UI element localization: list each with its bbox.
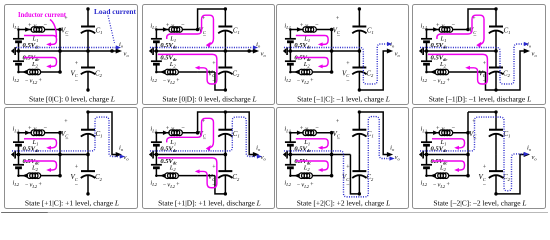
svg-text:+: + (300, 23, 304, 29)
svg-text:−: − (163, 182, 166, 188)
svg-text:+: + (310, 182, 313, 188)
svg-text:State [–1|D]: –1 level, discha: State [–1|D]: –1 level, discharge L (429, 95, 532, 104)
svg-text:+: + (28, 125, 32, 132)
svg-text:−: − (315, 125, 319, 132)
svg-text:+: + (39, 182, 42, 188)
svg-text:+: + (346, 165, 350, 171)
svg-text:−: − (337, 137, 341, 143)
svg-text:+: + (64, 119, 68, 125)
svg-text:+: + (166, 125, 170, 132)
svg-text:State [0|C]: 0 level, charge L: State [0|C]: 0 level, charge L (29, 95, 115, 104)
svg-text:−: − (25, 182, 28, 188)
svg-text:State [+2|C]: +2 level, charge: State [+2|C]: +2 level, charge L (297, 198, 391, 207)
svg-text:−: − (483, 182, 487, 188)
svg-text:State [–1|C]: –1 level, charge: State [–1|C]: –1 level, charge L (297, 94, 390, 103)
svg-text:−: − (315, 23, 319, 29)
svg-text:+: + (166, 23, 170, 29)
svg-text:State [0|D]: 0 level, discharg: State [0|D]: 0 level, discharge L (162, 94, 256, 103)
svg-text:+: + (336, 119, 340, 125)
svg-text:+: + (300, 125, 304, 132)
svg-text:−: − (181, 125, 185, 132)
svg-text:−: − (346, 182, 350, 188)
svg-text:−: − (44, 22, 48, 29)
svg-text:−: − (163, 78, 166, 84)
svg-text:+: + (39, 78, 42, 84)
svg-text:+: + (436, 22, 440, 29)
svg-text:Inductor current: Inductor current (18, 10, 66, 19)
svg-text:+: + (447, 182, 450, 188)
svg-text:−: − (297, 182, 300, 188)
svg-text:+: + (472, 119, 476, 125)
svg-text:+: + (212, 165, 216, 171)
svg-text:−: − (44, 125, 48, 132)
svg-text:+: + (28, 22, 32, 29)
svg-text:+: + (75, 165, 79, 171)
svg-text:−: − (181, 23, 185, 29)
svg-text:−: − (65, 137, 69, 143)
svg-text:+: + (483, 165, 487, 171)
svg-text:+: + (447, 78, 450, 84)
svg-text:−: − (433, 182, 436, 188)
svg-text:State [–2|C]: –2 level, charge: State [–2|C]: –2 level, charge L (433, 198, 526, 207)
svg-text:−: − (297, 78, 300, 84)
svg-text:−: − (203, 137, 207, 143)
svg-text:State [+1|C]: +1 level, charge: State [+1|C]: +1 level, charge L (25, 198, 119, 207)
svg-text:+: + (436, 125, 440, 132)
svg-text:+: + (176, 78, 179, 84)
svg-text:+: + (310, 78, 313, 84)
svg-text:−: − (433, 78, 436, 84)
svg-text:−: − (25, 78, 28, 84)
svg-text:−: − (75, 182, 79, 188)
svg-text:+: + (176, 182, 179, 188)
svg-text:State [+1|D]: +1 level, discha: State [+1|D]: +1 level, discharge L (158, 198, 261, 207)
svg-text:Load current: Load current (94, 7, 136, 16)
svg-text:−: − (452, 125, 456, 132)
svg-text:−: − (452, 22, 456, 29)
